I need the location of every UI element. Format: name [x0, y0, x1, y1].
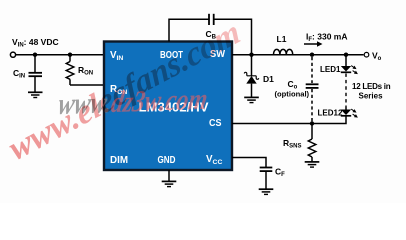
node junction LED string top: [344, 53, 348, 57]
wire to output terminal Vo: [346, 54, 364, 56]
svg-text:CS: CS: [209, 118, 222, 129]
svg-text:DIM: DIM: [110, 155, 128, 166]
label IF 330 mA with arrow: [304, 32, 347, 47]
svg-text:Series: Series: [359, 92, 384, 101]
label 12 LEDs in Series: [352, 82, 391, 101]
wire GND pin down: [168, 170, 170, 181]
node junction RON: [68, 53, 72, 57]
ground below CIN: [28, 92, 43, 97]
svg-text:VIN: 48 VDC: VIN: 48 VDC: [12, 37, 59, 49]
svg-text:Vo: Vo: [372, 51, 382, 63]
node junction D1/CB: [249, 53, 253, 57]
resistor RSNS: [283, 124, 316, 162]
wire dashed LED chain: [345, 74, 347, 108]
svg-text:RON: RON: [78, 65, 93, 77]
svg-text:LED1: LED1: [320, 65, 341, 74]
svg-text:LED12: LED12: [318, 109, 343, 118]
svg-text:RSNS: RSNS: [283, 138, 301, 150]
svg-text:L1: L1: [277, 34, 287, 44]
svg-text:CF: CF: [275, 167, 285, 179]
capacitor CF: [260, 167, 285, 189]
svg-text:D1: D1: [263, 74, 274, 84]
svg-text:CIN: CIN: [13, 68, 25, 80]
ground below D1: [244, 97, 259, 102]
wire SW pin to output rail: [232, 54, 346, 56]
svg-text:12 LEDs in: 12 LEDs in: [352, 82, 391, 91]
ground below CF: [259, 189, 274, 194]
IC U1 LM3402/HV buck LED driver: [104, 42, 232, 171]
wire LED string bottom to CS rail: [312, 116, 346, 124]
svg-text:(optional): (optional): [275, 90, 310, 99]
node Vo output terminal: [364, 51, 381, 63]
ground below GND pin: [162, 181, 177, 186]
node junction RSNS: [310, 121, 314, 125]
wire RON to IC RON pin: [70, 84, 104, 86]
capacitor Co optional, dashed leads: [275, 57, 319, 122]
inductor L1: [274, 34, 293, 54]
diode D1 schottky: [244, 55, 274, 97]
wire BOOT pin up and over to CB: [169, 19, 209, 41]
node VIN input terminal: [10, 37, 58, 57]
node junction CIN: [33, 53, 37, 57]
svg-text:GND: GND: [158, 155, 176, 166]
watermark www.dz3w.com horizontal: [55, 82, 211, 120]
watermark www.elecfans.com diagonal: [1, 13, 249, 168]
LED LED12: [318, 107, 359, 119]
wire CB to SW node: [214, 19, 252, 54]
wire input rail to IC VIN pin: [16, 54, 104, 56]
wire CS pin rail: [232, 123, 312, 125]
LED LED1: [320, 55, 359, 76]
ground below RSNS: [305, 162, 320, 167]
svg-text:IF: 330 mA: IF: 330 mA: [306, 32, 347, 44]
capacitor CB: [206, 14, 217, 41]
wire VCC pin to CF: [232, 158, 266, 168]
resistor RON: [66, 55, 93, 85]
capacitor CIN: [13, 55, 42, 92]
node junction Co: [310, 53, 314, 57]
